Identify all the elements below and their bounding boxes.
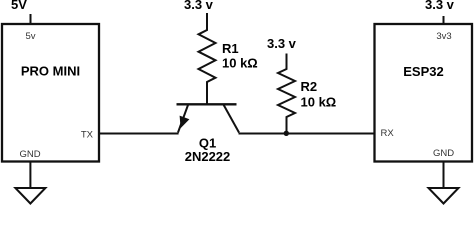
transistor Q1 emitter line — [178, 105, 188, 133]
wire TX to Q1 emitter — [99, 133, 179, 135]
svg-text:5v: 5v — [25, 31, 35, 42]
wire GND stub (right) — [443, 162, 445, 189]
svg-text:5V: 5V — [11, 0, 27, 12]
svg-text:3v3: 3v3 — [436, 31, 451, 42]
IC U1 PRO MINI box — [2, 24, 99, 162]
resistor R1 — [199, 13, 216, 104]
svg-text:3.3 v: 3.3 v — [425, 0, 455, 12]
svg-text:ESP32: ESP32 — [403, 64, 443, 79]
svg-text:2N2222: 2N2222 — [185, 149, 231, 164]
svg-text:3.3 v: 3.3 v — [184, 0, 214, 12]
transistor Q1 emitter arrowhead — [180, 116, 190, 129]
svg-text:TX: TX — [81, 130, 94, 141]
svg-text:3.3 v: 3.3 v — [267, 36, 297, 51]
wire Q1 collector to RX — [239, 133, 375, 135]
transistor Q1 base bar — [177, 103, 237, 105]
resistor R2 — [278, 54, 295, 134]
wire 5V stub — [30, 14, 32, 24]
ground symbol (right) — [429, 188, 459, 204]
transistor Q1 collector line — [224, 105, 239, 133]
node junction dot — [284, 131, 289, 136]
svg-text:10 kΩ: 10 kΩ — [222, 56, 258, 71]
svg-text:R1: R1 — [222, 41, 239, 56]
svg-text:R2: R2 — [301, 79, 318, 94]
IC U2 ESP32 box — [375, 24, 473, 162]
svg-text:RX: RX — [381, 128, 395, 139]
svg-text:10 kΩ: 10 kΩ — [301, 95, 337, 110]
wire GND stub (left) — [29, 162, 31, 189]
svg-text:GND: GND — [19, 149, 40, 160]
svg-text:GND: GND — [433, 148, 454, 159]
wire 3.3v stub (ESP32) — [443, 16, 445, 24]
svg-text:PRO MINI: PRO MINI — [21, 64, 80, 79]
ground symbol (left) — [15, 188, 45, 204]
